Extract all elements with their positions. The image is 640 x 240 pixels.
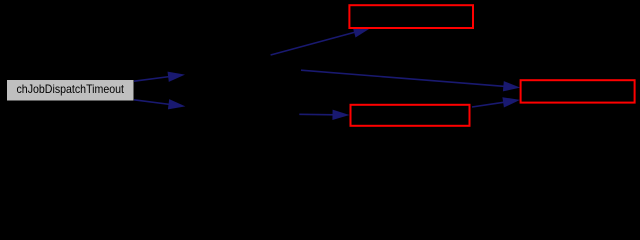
edge mid to right box — [301, 70, 520, 91]
edge mid to top box — [271, 27, 371, 55]
node chJobDispatchTimeout (grey) — [7, 80, 134, 101]
node bottom (red, truncated) — [351, 105, 470, 126]
edge main to mid lower — [134, 99, 185, 109]
node top (red, truncated) — [349, 5, 473, 28]
node right (red, truncated) — [521, 80, 635, 102]
edge bottom box to right box — [472, 97, 520, 107]
svg-text:chJobDispatchTimeout: chJobDispatchTimeout — [17, 82, 125, 96]
edge mid to bottom box — [299, 110, 349, 120]
edge main to mid upper — [134, 72, 185, 82]
